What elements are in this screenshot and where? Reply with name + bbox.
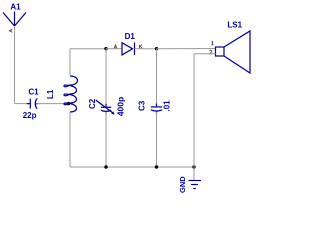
wire D1 cathode to C3 junction bbox=[135, 48, 157, 50]
svg-text:GND: GND bbox=[178, 176, 187, 193]
antenna A1 bbox=[3, 2, 26, 26]
svg-text:L1: L1 bbox=[46, 89, 55, 99]
wire GND stem bbox=[193, 167, 195, 180]
wire top rail: L1 corner to C2 junction bbox=[70, 48, 106, 50]
pin number 1 (LS1) bbox=[211, 42, 213, 45]
svg-text:22p: 22p bbox=[23, 111, 37, 120]
svg-text:400p: 400p bbox=[116, 97, 126, 117]
ground GND bbox=[178, 176, 201, 193]
capacitor C1 bbox=[23, 88, 39, 121]
pin label A (antenna pin) bbox=[9, 29, 12, 32]
junction dot at L1 tap bbox=[67, 102, 70, 105]
pin label K (D1 cathode) bbox=[139, 45, 142, 49]
svg-text:D1: D1 bbox=[125, 32, 136, 41]
svg-text:C3: C3 bbox=[138, 100, 147, 111]
wire C3 bottom lead bbox=[156, 112, 158, 167]
wire L1 bottom lead bbox=[69, 112, 71, 167]
wire C2 top lead bbox=[105, 49, 107, 107]
wire LS1 pin2 drop bbox=[193, 54, 195, 167]
pin number 2 (LS1) bbox=[210, 50, 213, 54]
wire bottom rail bbox=[70, 166, 194, 168]
wire L1 top lead bbox=[69, 49, 71, 76]
svg-text:LS1: LS1 bbox=[227, 20, 242, 29]
capacitor C3 bbox=[138, 100, 172, 114]
pin label A (D1 anode) bbox=[114, 45, 117, 49]
wire top rail to LS1 pin 1 bbox=[157, 48, 216, 50]
svg-text:C1: C1 bbox=[28, 88, 39, 97]
wire top rail: C2 junction to D1 anode bbox=[106, 48, 122, 50]
junction dot bottom rail to GND bbox=[192, 165, 195, 168]
inductor L1 bbox=[46, 76, 78, 112]
svg-text:A1: A1 bbox=[10, 2, 21, 11]
loudspeaker LS1 bbox=[216, 20, 251, 73]
wire antenna to C1 bbox=[15, 103, 30, 105]
capacitor C2 (variable 400p) bbox=[88, 97, 126, 117]
wire C1 to L1 tap bbox=[36, 103, 69, 105]
wire antenna drop bbox=[14, 26, 16, 104]
junction dot bottom of C2 bbox=[104, 165, 107, 168]
svg-text:.01: .01 bbox=[163, 100, 172, 112]
junction dot top of C3 bbox=[155, 47, 158, 50]
wire LS1 pin2 horizontal bbox=[194, 53, 216, 55]
diode D1 bbox=[122, 32, 135, 55]
svg-text:C2: C2 bbox=[88, 98, 97, 109]
junction dot bottom of C3 bbox=[155, 165, 158, 168]
wire C3 top lead bbox=[156, 49, 158, 107]
wire C2 bottom lead bbox=[105, 112, 107, 167]
junction dot top of C2 bbox=[104, 47, 107, 50]
